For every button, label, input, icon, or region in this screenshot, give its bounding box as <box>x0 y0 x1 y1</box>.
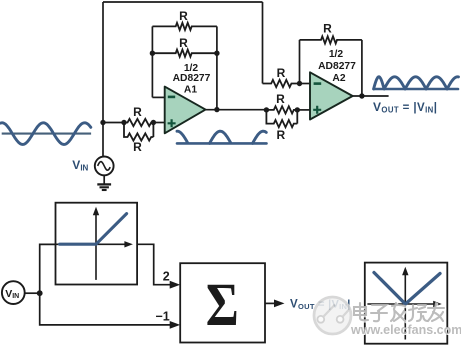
ground <box>97 184 111 190</box>
block half-wave transfer function <box>56 203 138 285</box>
wire input node up to top rail <box>102 2 104 123</box>
abs block vertical axis <box>402 267 408 340</box>
abs block horizontal axis <box>367 301 441 307</box>
junction dot A2 output <box>359 93 364 98</box>
transfer block horizontal axis <box>56 241 133 247</box>
resistor R A1 feedback upper <box>152 23 217 30</box>
junction dot A1 feedback left <box>150 51 155 56</box>
resistor R A2 feedback <box>300 36 362 43</box>
svg-text:VIN: VIN <box>72 158 88 173</box>
svg-text:R: R <box>276 128 285 142</box>
label 1/2 AD8277 A1 <box>173 63 211 96</box>
wire VIN to branch node <box>25 292 40 294</box>
wire A1 feedback right vertical <box>216 26 218 109</box>
svg-text:AD8277: AD8277 <box>318 61 356 72</box>
wire A1 inverting input <box>152 96 164 98</box>
op-amp U1 A1 <box>165 87 206 134</box>
junction dot A1 output <box>214 107 219 112</box>
transfer curve (half-wave) <box>60 214 127 245</box>
svg-text:A2: A2 <box>332 73 345 84</box>
label 1/2 AD8277 A2 <box>318 49 356 84</box>
wire summer output <box>265 302 275 304</box>
resistor R A1 +input lower <box>124 123 153 141</box>
wire A1 output to A2 +input network <box>206 109 267 111</box>
source VIN (sine source) <box>95 157 114 176</box>
svg-text:A1: A1 <box>184 84 197 95</box>
output full-wave waveform <box>374 77 459 89</box>
wire A1 feedback left vertical <box>151 26 153 97</box>
wire source to ground <box>103 175 105 184</box>
input sine waveform axis <box>2 133 91 135</box>
svg-text:R: R <box>276 92 285 106</box>
svg-text:1/2: 1/2 <box>329 49 344 60</box>
junction dot left of A2 input pair <box>264 107 269 112</box>
svg-text:R: R <box>179 9 188 23</box>
wire A2 feedback down to output <box>361 40 363 96</box>
watermark url text <box>350 323 461 338</box>
resistor R A1 feedback lower <box>152 50 217 57</box>
half-wave waveform between stages <box>177 131 267 143</box>
svg-text:www.elecfans.com: www.elecfans.com <box>350 323 461 337</box>
resistor R A1 +input upper <box>124 119 153 126</box>
svg-text:−1: −1 <box>155 309 169 323</box>
wire to A2 noninverting input <box>297 109 310 111</box>
source VIN (block diagram) <box>2 281 25 304</box>
wire A2 feedback up <box>299 40 301 84</box>
watermark text dianzifashaoyou <box>354 303 445 322</box>
wire input node to source VIN <box>102 123 104 157</box>
junction dot A1 feedback right <box>214 51 219 56</box>
wire A2 output <box>353 95 389 97</box>
svg-text:Σ: Σ <box>206 272 239 339</box>
wire input node to A1 input resistor pair <box>103 122 124 124</box>
resistor R A2 -input <box>263 80 300 87</box>
svg-text:R: R <box>179 36 188 50</box>
wire top rail <box>103 1 263 3</box>
svg-text:AD8277: AD8277 <box>173 73 211 84</box>
svg-text:R: R <box>133 105 142 119</box>
wire to A1 noninverting input <box>153 122 164 124</box>
watermark logo circle <box>314 297 351 334</box>
node input junction dot <box>100 120 105 125</box>
svg-text:2: 2 <box>163 270 170 284</box>
arrowhead gain-2 input <box>170 281 181 289</box>
wire to A2 inverting input <box>300 83 311 85</box>
svg-text:R: R <box>277 66 286 80</box>
wire top rail down to A2 input resistor <box>262 2 264 84</box>
resistor R A2 +input upper <box>266 106 297 113</box>
input sine waveform <box>1 123 91 145</box>
arrowhead gain -1 input <box>170 321 181 329</box>
op-amp U2 A2 <box>310 72 353 119</box>
wire clamp block output to summer <box>137 244 170 284</box>
arrowhead summer output <box>274 300 285 308</box>
transfer block vertical axis <box>93 207 99 280</box>
resistor R A2 +input lower <box>266 110 297 127</box>
wire branch to summer gain -1 <box>40 293 171 325</box>
junction dot VIN branch <box>37 290 43 296</box>
junction dot right of A2 input pair <box>295 107 300 112</box>
junction dot right of A1 input pair <box>151 120 156 125</box>
svg-text:VOUT = |VIN|: VOUT = |VIN| <box>373 100 437 115</box>
junction dot left of A1 input pair <box>121 120 126 125</box>
svg-text:R: R <box>323 22 332 36</box>
svg-text:R: R <box>133 140 142 154</box>
junction dot A2 inverting node <box>297 81 302 86</box>
wire branch up to clamp block <box>40 244 56 293</box>
abs-value V curve <box>374 273 440 305</box>
block absolute-value response <box>365 263 448 344</box>
block summer <box>180 263 265 342</box>
